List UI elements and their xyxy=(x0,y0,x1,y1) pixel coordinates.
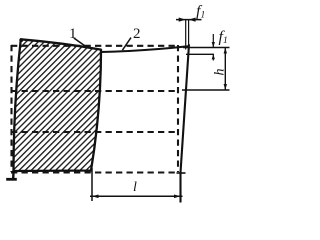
shear wall W (deformed, hatched) xyxy=(14,39,102,171)
wire: dashed original right column xyxy=(177,45,179,172)
svg-text:1: 1 xyxy=(69,26,77,42)
wall base support foot xyxy=(6,170,17,179)
wire: dashed original top floor line xyxy=(11,45,178,47)
wire: dashed floor 2 xyxy=(11,90,178,92)
svg-text:2: 2 xyxy=(133,26,141,42)
dimension l: arrows xyxy=(92,195,99,199)
svg-text:h: h xyxy=(213,69,228,76)
column: deformed right column xyxy=(181,44,190,202)
wire: dashed floor 3 xyxy=(11,131,178,133)
right level line 2 (deformed beam end) xyxy=(186,53,214,55)
level line floor2 deformed xyxy=(182,89,230,91)
dimension l: left extension xyxy=(91,168,93,201)
curve 2: deformed beam from wall to column xyxy=(101,46,189,52)
dimension f1 top: arrows xyxy=(179,18,186,22)
dimension h: vertical line xyxy=(224,48,226,91)
wall top corner blob xyxy=(19,38,23,42)
tick on column at bottom floor xyxy=(177,172,186,174)
dimension f1 right: arrow lines xyxy=(212,34,214,48)
wire: dashed bottom floor xyxy=(11,171,178,173)
right level line top xyxy=(183,47,230,49)
label 2 leader xyxy=(122,38,131,51)
dimension f1 top: line xyxy=(176,19,202,21)
dimension f1 top: extension lines xyxy=(185,19,187,50)
svg-text:l: l xyxy=(133,180,137,195)
wire: dashed original left column xyxy=(10,45,12,172)
label 1 leader xyxy=(74,38,86,47)
dimension h: arrows xyxy=(224,48,227,54)
dimension l: line xyxy=(90,195,183,197)
